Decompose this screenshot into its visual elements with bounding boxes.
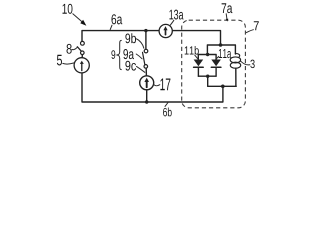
labels [63, 14, 254, 107]
label 3 leader [241, 61, 250, 65]
rail4 [208, 85, 237, 87]
node junction dot rail4 [221, 85, 225, 89]
label 13a text [169, 10, 173, 20]
label 8 text [67, 44, 72, 54]
current source 5 [74, 58, 89, 73]
wire middle branch upper [145, 31, 147, 49]
label 7 text [254, 21, 259, 30]
label 17 leader [154, 84, 160, 86]
switch 8 (left branch) [77, 41, 84, 54]
label 5 text [57, 55, 62, 66]
label 17 text [160, 78, 164, 90]
label 10 leader arrow [73, 14, 82, 22]
wire rail3 to rail4 [207, 76, 209, 86]
label 7a leader [225, 14, 228, 20]
label 10 text [63, 4, 67, 14]
ammeter 13a on top bus [159, 24, 172, 37]
diode 11b [194, 60, 204, 77]
label 6a text [111, 14, 116, 24]
current source 17 [140, 76, 154, 90]
diode 11a [211, 60, 221, 77]
node junction dot rail2 [206, 53, 209, 56]
dashed enclosure 7 [182, 20, 246, 108]
rail2 with drops to diode anodes [198, 55, 216, 60]
wire middle branch lower [146, 90, 148, 102]
label 3 text [250, 60, 254, 69]
wire between switch 8 and source 5 [81, 55, 83, 58]
label 13a leader [170, 20, 174, 25]
label 6a leader [110, 25, 112, 29]
label 9c text [125, 61, 130, 71]
label 8 leader [72, 47, 77, 49]
label 9 text [111, 50, 115, 59]
node junction dot bottom bus / middle branch [145, 100, 148, 103]
wire middle branch between switch 9 and source 17 [145, 68, 147, 75]
label 5 leader [63, 63, 74, 64]
node junction dot top bus / middle branch [144, 29, 147, 32]
node junction dot rail3 [206, 75, 209, 78]
node junction dot on rail1 (feed) [219, 43, 223, 47]
rail1 inside box [207, 45, 235, 55]
wire top bus from left corner to right drop into box [82, 31, 221, 45]
label 9b text [125, 34, 130, 44]
rail3 under diodes [198, 75, 216, 77]
label 11b text [185, 46, 189, 54]
label 9c leader [137, 66, 145, 72]
label 9 brace [116, 40, 121, 69]
wire bottom bus [82, 73, 223, 102]
label 11b leader [195, 55, 198, 58]
label 11a leader [216, 56, 219, 59]
label 9a text [123, 49, 128, 59]
label 6b text [163, 108, 167, 117]
label 7 leader [246, 30, 253, 33]
label 6b leader [165, 103, 168, 107]
label 11a text [219, 49, 222, 58]
switch 9 (contacts 9b top, 9c bottom, blade 9a) [143, 49, 148, 68]
label 9a leader [136, 54, 142, 59]
label 7a text [222, 3, 227, 13]
coil 3 [230, 54, 241, 87]
label 9b leader [136, 39, 144, 48]
